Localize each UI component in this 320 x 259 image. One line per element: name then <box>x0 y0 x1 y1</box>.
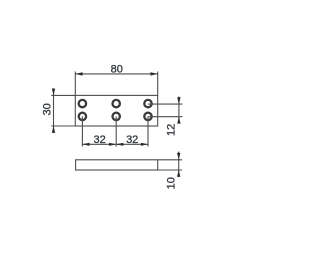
hole A3 (top-right) <box>144 100 151 107</box>
svg-text:10: 10 <box>166 177 178 189</box>
hole B1 (bottom-left) <box>79 113 86 120</box>
dim 12: extension line top (from hole A3) <box>148 103 182 105</box>
dim 10: dimension line <box>178 152 180 177</box>
dim 32: extension line right (from hole B3) <box>147 116 149 146</box>
hole B3 (bottom-right) <box>144 113 151 120</box>
dim 30: arrow bottom (outside, pointing up) <box>52 126 55 133</box>
hole A2 (top-middle) <box>113 100 120 107</box>
dim 32 right: arrow left at middle <box>116 143 123 146</box>
dim 10: extension line top <box>158 159 182 161</box>
dim 30: extension line bottom <box>51 125 75 127</box>
plate outline (top view) <box>75 95 157 126</box>
hole A1 (top-left) <box>79 100 86 107</box>
dim 10: extension line bottom <box>158 169 182 171</box>
dim 32: extension line left (from hole B1) <box>81 116 83 146</box>
dim 30: extension line top <box>51 94 75 96</box>
svg-text:12: 12 <box>166 124 178 136</box>
dim 80: arrow left <box>75 72 82 75</box>
svg-text:32: 32 <box>126 134 138 146</box>
dim 32 right: arrow right <box>141 143 148 146</box>
dim 80: arrow right <box>150 72 157 75</box>
svg-text:32: 32 <box>93 134 105 146</box>
dim 80: dimension line <box>75 73 157 75</box>
hole B2 (bottom-middle) <box>113 113 120 120</box>
dim 32: dimension line <box>82 143 148 145</box>
dim 10: arrow top (outside, pointing down) <box>177 153 180 160</box>
dim 10: arrow bottom (outside, pointing up) <box>177 170 180 177</box>
svg-text:30: 30 <box>42 103 54 115</box>
dim 12: extension line bottom (from hole B3) <box>148 116 182 118</box>
svg-text:80: 80 <box>111 63 123 75</box>
dim 30: dimension line <box>53 89 55 133</box>
dim 12: dimension line <box>178 97 180 124</box>
plate outline (side view) <box>76 160 158 170</box>
dim 32 left: arrow left <box>82 143 89 146</box>
dim 32: extension line middle (from hole B2) <box>115 116 117 146</box>
dim 12: arrow bottom (outside, pointing up) <box>177 117 180 124</box>
dim 32 left: arrow right at middle <box>109 143 116 146</box>
dim 80: extension line right <box>157 72 159 96</box>
dim 80: extension line left <box>74 72 76 96</box>
dim 12: arrow top (outside, pointing down) <box>177 97 180 104</box>
dim 30: arrow top (outside, pointing down) <box>52 89 55 96</box>
